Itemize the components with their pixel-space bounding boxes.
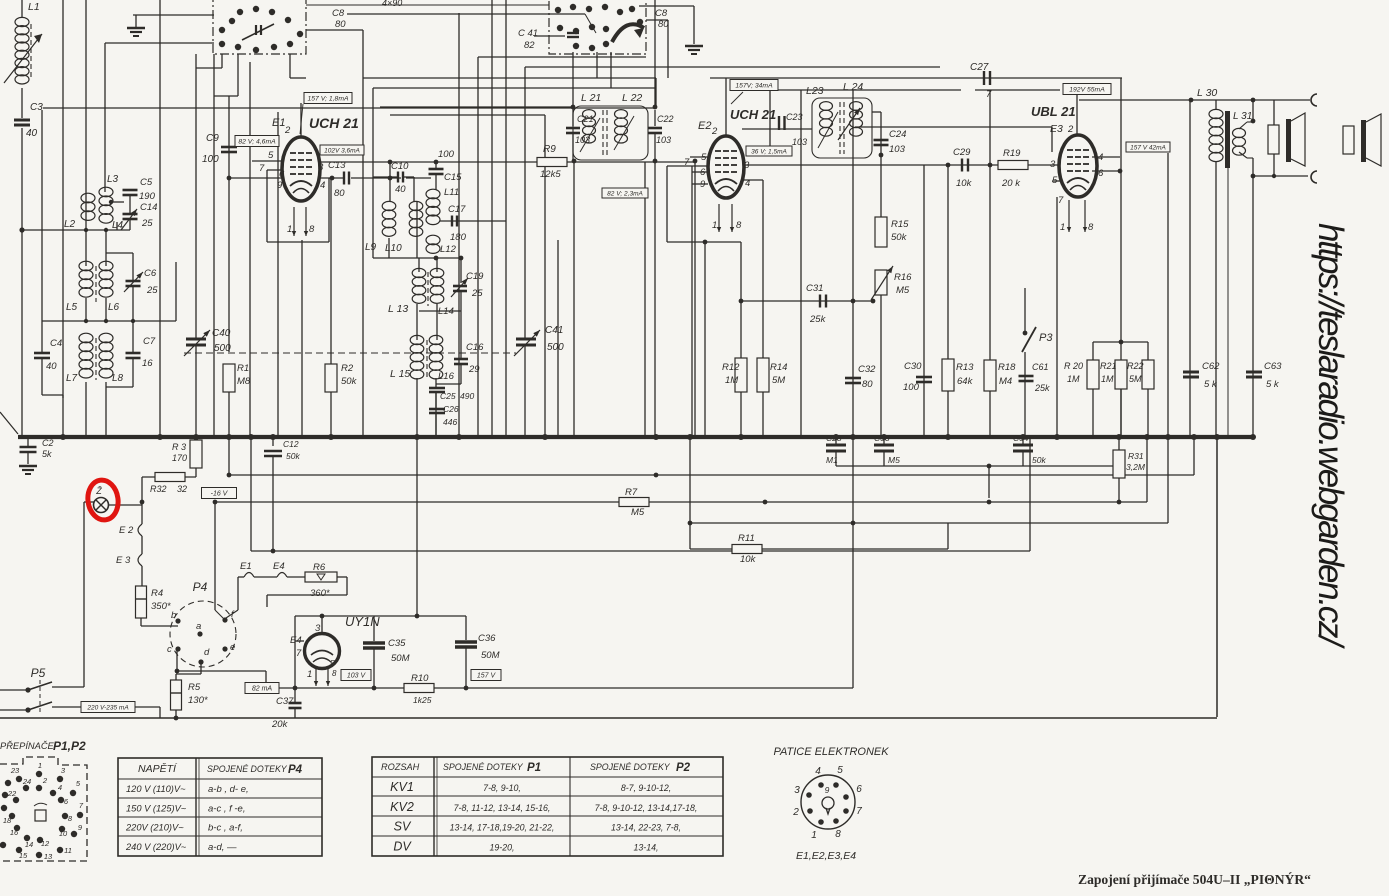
svg-text:C24: C24 xyxy=(889,129,906,140)
svg-text:L3: L3 xyxy=(107,174,119,185)
svg-text:R7: R7 xyxy=(625,487,638,498)
svg-text:490: 490 xyxy=(460,391,474,401)
svg-text:150 V (125)V~: 150 V (125)V~ xyxy=(126,803,187,813)
svg-text:103: 103 xyxy=(792,137,807,147)
svg-text:L 22: L 22 xyxy=(622,92,642,104)
svg-text:3,2M: 3,2M xyxy=(1126,462,1146,472)
svg-text:E1: E1 xyxy=(272,117,285,129)
svg-text:50k: 50k xyxy=(341,376,358,387)
svg-text:SPOJENÉ DOTEKY: SPOJENÉ DOTEKY xyxy=(207,764,288,774)
svg-text:C29: C29 xyxy=(953,147,971,158)
svg-text:4: 4 xyxy=(58,783,62,792)
svg-text:5M: 5M xyxy=(772,375,785,386)
svg-text:220 V-235 mA: 220 V-235 mA xyxy=(86,704,128,711)
svg-text:40: 40 xyxy=(26,128,38,139)
svg-text:C30: C30 xyxy=(904,361,922,372)
svg-text:80: 80 xyxy=(658,19,669,30)
svg-text:C25: C25 xyxy=(440,391,456,401)
svg-text:L6: L6 xyxy=(108,302,120,313)
svg-text:R11: R11 xyxy=(738,533,755,544)
svg-text:L7: L7 xyxy=(66,373,78,384)
svg-text:R19: R19 xyxy=(1003,148,1021,159)
svg-text:L11: L11 xyxy=(444,187,459,198)
svg-text:C36: C36 xyxy=(478,633,496,644)
svg-text:500: 500 xyxy=(214,343,231,354)
svg-text:11: 11 xyxy=(64,846,72,855)
svg-text:80: 80 xyxy=(334,188,345,199)
svg-text:E 3: E 3 xyxy=(116,555,131,566)
svg-text:1: 1 xyxy=(38,761,42,770)
svg-text:M1: M1 xyxy=(826,455,838,465)
svg-text:E4: E4 xyxy=(273,561,285,572)
svg-text:M5: M5 xyxy=(888,455,900,465)
svg-text:29: 29 xyxy=(468,364,480,375)
svg-text:1: 1 xyxy=(1060,222,1065,233)
svg-text:16: 16 xyxy=(142,358,153,369)
svg-text:C10: C10 xyxy=(391,161,409,172)
svg-text:M5: M5 xyxy=(896,285,910,296)
svg-text:20 k: 20 k xyxy=(1001,178,1021,189)
svg-text:L 15: L 15 xyxy=(390,368,410,380)
svg-text:SPOJENÉ DOTEKY: SPOJENÉ DOTEKY xyxy=(443,762,524,772)
svg-text:80: 80 xyxy=(335,19,346,30)
svg-text:8: 8 xyxy=(1088,222,1094,233)
svg-text:82: 82 xyxy=(524,40,535,51)
svg-text:E3: E3 xyxy=(1050,123,1063,135)
svg-text:192V 55mA: 192V 55mA xyxy=(1069,86,1105,93)
svg-text:2: 2 xyxy=(284,125,291,136)
svg-text:UY1N: UY1N xyxy=(345,614,380,629)
svg-text:130*: 130* xyxy=(188,695,208,706)
svg-text:R16: R16 xyxy=(894,272,912,283)
svg-text:R32: R32 xyxy=(150,484,167,494)
svg-text:Ž: Ž xyxy=(95,486,102,496)
svg-text:3: 3 xyxy=(744,160,750,171)
svg-text:6: 6 xyxy=(1098,168,1104,179)
svg-text:R1: R1 xyxy=(237,363,249,374)
svg-text:L5: L5 xyxy=(66,302,78,313)
svg-text:103: 103 xyxy=(889,144,906,155)
svg-text:4: 4 xyxy=(815,766,821,777)
svg-text:ROZSAH: ROZSAH xyxy=(381,762,420,772)
svg-text:L1: L1 xyxy=(28,1,40,13)
svg-text:C37: C37 xyxy=(276,696,294,707)
svg-text:3: 3 xyxy=(315,623,321,634)
svg-text:190: 190 xyxy=(139,191,156,202)
svg-text:7-8, 11-12, 13-14, 15-16,: 7-8, 11-12, 13-14, 15-16, xyxy=(454,803,551,813)
svg-text:C13: C13 xyxy=(328,160,346,171)
svg-text:R6: R6 xyxy=(313,562,326,573)
svg-text:R31: R31 xyxy=(1128,451,1144,461)
svg-text:2: 2 xyxy=(792,807,799,818)
svg-text:82 V; 2,3mA: 82 V; 2,3mA xyxy=(607,190,643,197)
svg-text:7-8, 9-10-12, 13-14,17-18,: 7-8, 9-10-12, 13-14,17-18, xyxy=(595,803,698,813)
svg-text:1k25: 1k25 xyxy=(413,695,432,705)
svg-text:L 30: L 30 xyxy=(1197,87,1217,99)
svg-text:L 31: L 31 xyxy=(1233,111,1252,122)
svg-text:e: e xyxy=(230,642,235,653)
svg-text:C 41: C 41 xyxy=(518,28,538,39)
svg-text:6: 6 xyxy=(700,167,706,178)
svg-text:P3: P3 xyxy=(1039,332,1053,344)
svg-text:C17: C17 xyxy=(448,204,466,215)
svg-text:UCH 21: UCH 21 xyxy=(309,115,359,131)
svg-text:22: 22 xyxy=(7,789,17,798)
svg-text:1: 1 xyxy=(712,220,717,231)
svg-text:170: 170 xyxy=(172,453,187,463)
svg-text:P1,P2: P1,P2 xyxy=(53,739,86,753)
svg-text:7: 7 xyxy=(296,648,302,659)
svg-text:2: 2 xyxy=(42,776,48,785)
svg-text:PATICE ELEKTRONEK: PATICE ELEKTRONEK xyxy=(773,746,889,758)
svg-text:220V (210)V~: 220V (210)V~ xyxy=(125,823,184,833)
svg-text:L16: L16 xyxy=(438,371,455,382)
svg-text:R 20: R 20 xyxy=(1064,361,1083,371)
svg-text:5: 5 xyxy=(330,659,335,668)
svg-text:13-14, 17-18,19-20, 21-22,: 13-14, 17-18,19-20, 21-22, xyxy=(450,823,555,833)
svg-text:E1,E2,E3,E4: E1,E2,E3,E4 xyxy=(796,850,856,862)
svg-text:25: 25 xyxy=(471,288,483,299)
svg-text:C31: C31 xyxy=(806,283,823,294)
svg-text:C34: C34 xyxy=(1013,433,1029,443)
svg-text:16: 16 xyxy=(10,828,19,837)
svg-text:C2: C2 xyxy=(42,438,54,448)
svg-text:C6: C6 xyxy=(144,268,157,279)
svg-text:32: 32 xyxy=(177,484,187,494)
svg-text:13-14,: 13-14, xyxy=(634,842,659,852)
svg-text:DV: DV xyxy=(393,839,412,853)
svg-text:2: 2 xyxy=(1067,124,1074,135)
svg-text:E1: E1 xyxy=(240,561,252,572)
svg-text:Zapojení přijímače 504U–II „PI: Zapojení přijímače 504U–II „PIΘNÝR“ xyxy=(1078,871,1311,887)
svg-text:L9: L9 xyxy=(365,242,377,253)
svg-text:R22: R22 xyxy=(1127,361,1144,371)
svg-text:7: 7 xyxy=(259,163,265,174)
svg-text:L8: L8 xyxy=(112,373,124,384)
svg-text:8: 8 xyxy=(736,220,742,231)
svg-text:1: 1 xyxy=(307,669,312,680)
svg-text:12k5: 12k5 xyxy=(540,169,561,180)
svg-text:157 V 42mA: 157 V 42mA xyxy=(1130,144,1166,151)
svg-text:C35: C35 xyxy=(388,638,406,649)
svg-text:C14: C14 xyxy=(140,202,157,213)
svg-text:157V; 34mA: 157V; 34mA xyxy=(735,82,773,89)
svg-text:L4: L4 xyxy=(112,220,124,231)
svg-text:50M: 50M xyxy=(391,653,410,664)
svg-text:C23: C23 xyxy=(786,112,803,122)
svg-text:L23: L23 xyxy=(806,85,824,97)
svg-text:R4: R4 xyxy=(151,588,163,599)
svg-text:9: 9 xyxy=(277,180,283,191)
svg-text:L 13: L 13 xyxy=(388,303,408,315)
svg-text:C12: C12 xyxy=(283,439,299,449)
svg-text:M4: M4 xyxy=(999,376,1012,387)
svg-text:C32: C32 xyxy=(858,364,876,375)
svg-text:P4: P4 xyxy=(288,764,303,776)
svg-text:C40: C40 xyxy=(212,328,231,339)
svg-text:36 V; 1,5mA: 36 V; 1,5mA xyxy=(751,148,787,155)
svg-text:d: d xyxy=(204,647,210,658)
svg-text:R18: R18 xyxy=(998,362,1016,373)
svg-text:C7: C7 xyxy=(143,336,156,347)
svg-text:C63: C63 xyxy=(1264,361,1282,372)
svg-text:3: 3 xyxy=(1050,159,1056,170)
svg-text:E2: E2 xyxy=(698,120,711,132)
svg-text:5k: 5k xyxy=(42,449,52,459)
svg-text:103 V: 103 V xyxy=(347,673,367,680)
svg-text:5: 5 xyxy=(701,152,707,163)
svg-text:L 21: L 21 xyxy=(581,92,601,104)
svg-text:64k: 64k xyxy=(957,376,974,387)
svg-text:R9: R9 xyxy=(543,144,556,155)
svg-text:L 24: L 24 xyxy=(843,81,863,93)
svg-text:SV: SV xyxy=(394,820,412,834)
svg-text:P4: P4 xyxy=(193,580,208,594)
svg-text:C3: C3 xyxy=(30,102,43,113)
svg-text:KV1: KV1 xyxy=(390,780,414,794)
svg-text:1M: 1M xyxy=(725,375,738,386)
svg-text:C15: C15 xyxy=(444,172,462,183)
svg-text:L12: L12 xyxy=(440,244,457,255)
svg-text:13-14, 22-23, 7-8,: 13-14, 22-23, 7-8, xyxy=(611,823,681,833)
svg-text:1M: 1M xyxy=(1067,374,1080,384)
svg-text:KV2: KV2 xyxy=(390,800,414,814)
svg-text:a-b , d- e,: a-b , d- e, xyxy=(208,784,249,795)
svg-text:M5: M5 xyxy=(631,507,645,518)
svg-text:100: 100 xyxy=(903,382,920,393)
svg-text:b-c , a-f,: b-c , a-f, xyxy=(208,823,243,834)
svg-text:C28: C28 xyxy=(826,433,842,443)
svg-text:15: 15 xyxy=(19,851,28,860)
svg-text:157 V; 1,8mA: 157 V; 1,8mA xyxy=(307,95,349,102)
svg-text:5: 5 xyxy=(1052,175,1058,186)
svg-text:c: c xyxy=(167,644,172,655)
svg-text:C26: C26 xyxy=(443,404,459,414)
svg-text:50k: 50k xyxy=(286,451,300,461)
svg-text:R 3: R 3 xyxy=(172,442,186,452)
svg-text:2: 2 xyxy=(711,126,718,137)
svg-text:82 V; 4,6mA: 82 V; 4,6mA xyxy=(238,138,276,145)
svg-text:R21: R21 xyxy=(1100,361,1117,371)
svg-text:P1: P1 xyxy=(527,762,541,774)
svg-text:8: 8 xyxy=(309,224,315,235)
svg-text:4×90: 4×90 xyxy=(382,0,402,8)
svg-text:UBL 21: UBL 21 xyxy=(1031,104,1076,119)
svg-text:50k: 50k xyxy=(1032,455,1046,465)
svg-text:350*: 350* xyxy=(151,601,171,612)
svg-text:180: 180 xyxy=(450,232,467,243)
svg-text:a: a xyxy=(196,621,201,632)
svg-text:5 k: 5 k xyxy=(1266,379,1280,390)
svg-text:14: 14 xyxy=(25,840,33,849)
svg-text:NAPĚTÍ: NAPĚTÍ xyxy=(138,762,178,775)
svg-text:b: b xyxy=(171,610,176,621)
svg-text:P5: P5 xyxy=(31,666,46,680)
svg-text:PŘEPÍNAČE: PŘEPÍNAČE xyxy=(0,741,55,751)
svg-text:7: 7 xyxy=(684,157,690,168)
svg-text:C9: C9 xyxy=(206,133,219,144)
svg-text:25k: 25k xyxy=(809,314,827,325)
svg-text:446: 446 xyxy=(443,417,457,427)
svg-text:120 V (110)V~: 120 V (110)V~ xyxy=(126,784,186,794)
svg-text:24: 24 xyxy=(22,777,31,786)
svg-text:9: 9 xyxy=(825,785,830,795)
svg-text:100: 100 xyxy=(202,154,219,165)
svg-text:103: 103 xyxy=(656,135,671,145)
svg-text:40: 40 xyxy=(46,361,57,372)
svg-text:9: 9 xyxy=(700,179,706,190)
svg-text:360*: 360* xyxy=(310,588,330,599)
svg-text:C16: C16 xyxy=(466,342,484,353)
svg-text:C4: C4 xyxy=(50,338,62,349)
svg-text:R12: R12 xyxy=(722,362,740,373)
svg-text:1: 1 xyxy=(811,830,817,841)
svg-text:https://teslaradio.webgarden.c: https://teslaradio.webgarden.cz/ xyxy=(1311,223,1350,649)
svg-text:157 V: 157 V xyxy=(477,673,497,680)
svg-text:8-7, 9-10-12,: 8-7, 9-10-12, xyxy=(621,783,671,793)
svg-text:R10: R10 xyxy=(411,673,429,684)
svg-text:R13: R13 xyxy=(956,362,974,373)
svg-text:25k: 25k xyxy=(1034,383,1050,393)
svg-text:5: 5 xyxy=(268,150,274,161)
svg-text:4: 4 xyxy=(1098,152,1103,163)
svg-text:10k: 10k xyxy=(956,178,973,189)
svg-text:50M: 50M xyxy=(481,650,500,661)
svg-text:6: 6 xyxy=(856,784,862,795)
svg-text:C33: C33 xyxy=(874,433,890,443)
svg-text:3: 3 xyxy=(794,785,800,796)
svg-text:19-20,: 19-20, xyxy=(490,842,515,852)
svg-text:C22: C22 xyxy=(657,114,674,124)
svg-text:50k: 50k xyxy=(891,232,908,243)
svg-text:102V 3,6mA: 102V 3,6mA xyxy=(324,147,360,154)
svg-text:25: 25 xyxy=(146,285,158,296)
svg-text:a-c , f -e,: a-c , f -e, xyxy=(208,803,245,814)
svg-text:8: 8 xyxy=(332,669,337,678)
svg-text:-16 V: -16 V xyxy=(211,491,229,498)
svg-text:C8: C8 xyxy=(332,8,345,19)
svg-text:12: 12 xyxy=(41,839,50,848)
svg-text:C27: C27 xyxy=(970,62,989,73)
svg-text:4: 4 xyxy=(745,178,750,189)
svg-text:R5: R5 xyxy=(188,682,201,693)
svg-text:13: 13 xyxy=(44,852,53,861)
svg-text:7: 7 xyxy=(986,89,992,100)
svg-text:SPOJENÉ DOTEKY: SPOJENÉ DOTEKY xyxy=(590,762,671,772)
svg-text:8: 8 xyxy=(835,829,841,840)
svg-text:100: 100 xyxy=(438,149,455,160)
svg-text:C19: C19 xyxy=(466,271,484,282)
svg-text:5: 5 xyxy=(837,765,843,776)
svg-text:L10: L10 xyxy=(385,243,402,254)
svg-text:82 mA: 82 mA xyxy=(252,686,273,693)
svg-text:5M: 5M xyxy=(1129,374,1142,384)
svg-text:E 2: E 2 xyxy=(119,525,134,536)
svg-text:103: 103 xyxy=(575,135,590,145)
svg-text:7: 7 xyxy=(1058,195,1064,206)
svg-text:M8: M8 xyxy=(237,376,251,387)
svg-text:C62: C62 xyxy=(1202,361,1220,372)
svg-text:7: 7 xyxy=(856,806,862,817)
svg-text:L2: L2 xyxy=(64,219,76,230)
svg-text:10k: 10k xyxy=(740,554,757,565)
svg-text:a-d, —: a-d, — xyxy=(208,842,237,853)
svg-text:7-8, 9-10,: 7-8, 9-10, xyxy=(483,783,521,793)
svg-text:R2: R2 xyxy=(341,363,354,374)
svg-text:P2: P2 xyxy=(676,762,691,774)
svg-text:R15: R15 xyxy=(891,219,909,230)
svg-text:500: 500 xyxy=(547,342,564,353)
svg-text:C61: C61 xyxy=(1032,362,1049,372)
svg-text:20k: 20k xyxy=(271,719,289,730)
svg-text:18: 18 xyxy=(3,816,12,825)
svg-text:C5: C5 xyxy=(140,177,153,188)
svg-text:25: 25 xyxy=(141,218,153,229)
svg-text:1M: 1M xyxy=(1101,374,1114,384)
svg-text:4: 4 xyxy=(320,180,325,191)
svg-text:E4: E4 xyxy=(290,635,302,646)
svg-text:3: 3 xyxy=(318,162,324,173)
svg-text:240 V (220)V~: 240 V (220)V~ xyxy=(125,842,187,852)
svg-text:1: 1 xyxy=(287,224,292,235)
svg-text:10: 10 xyxy=(59,829,68,838)
svg-text:C41: C41 xyxy=(545,325,563,336)
svg-text:C8: C8 xyxy=(655,8,668,19)
svg-text:R14: R14 xyxy=(770,362,787,373)
svg-text:UCH 21: UCH 21 xyxy=(730,107,776,122)
svg-text:40: 40 xyxy=(395,184,406,195)
svg-text:23: 23 xyxy=(10,766,20,775)
svg-text:C21: C21 xyxy=(577,114,594,124)
svg-text:80: 80 xyxy=(862,379,873,390)
